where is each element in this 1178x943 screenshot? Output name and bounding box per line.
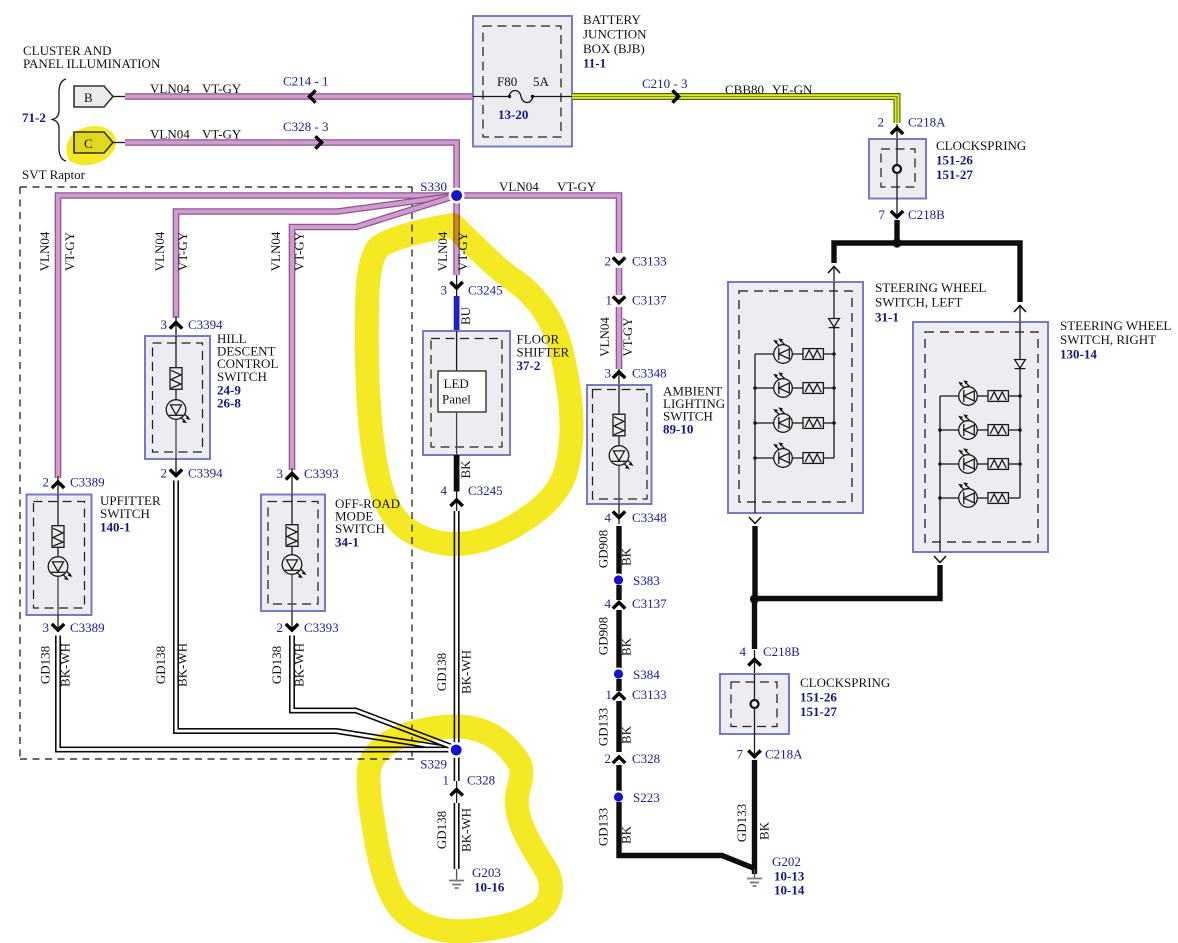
svg-text:C3393: C3393 (304, 466, 339, 481)
svg-text:G203: G203 (472, 865, 501, 880)
highlighter loop around ground G203 (369, 726, 551, 931)
label YE-GN on YE-GN wire (772, 82, 813, 97)
wire VLN04 VT-GY from S330 right to ambient chain (457, 196, 619, 254)
ground G202 (747, 869, 762, 886)
svg-text:VT-GY: VT-GY (557, 179, 597, 194)
pin 2 and connector C3133 on ambient chain (605, 254, 667, 269)
svg-text:VLN04: VLN04 (152, 231, 167, 271)
wire BK to right steering wheel switch (897, 243, 1020, 302)
svg-text:151-27: 151-27 (936, 167, 973, 182)
svg-text:7: 7 (879, 207, 886, 222)
clockspring lower (720, 674, 789, 734)
wire VLN04 short segment (616, 268, 623, 295)
svg-text:34-1: 34-1 (335, 535, 359, 550)
label VT-GY on wire to ambient chain (557, 179, 597, 194)
svg-text:C218B: C218B (908, 207, 945, 222)
rotated label GD133 seg (596, 708, 611, 746)
svg-text:1: 1 (606, 687, 613, 702)
LED row 1 right switch (940, 380, 1020, 405)
right switch right bus (1018, 369, 1022, 498)
LED row 3 left switch (755, 407, 834, 432)
svg-text:F80: F80 (497, 74, 517, 89)
svg-text:89-10: 89-10 (663, 422, 693, 437)
pin 4 and connector C3245 below floor shifter (441, 483, 503, 511)
LED row 4 right switch (940, 482, 1020, 507)
wire BK out of floor shifter (454, 455, 460, 492)
highlighter loop around floor shifter (367, 225, 572, 544)
BJB title text (583, 12, 647, 71)
svg-text:1: 1 (443, 773, 450, 788)
svg-text:CLOCKSPRING: CLOCKSPRING (936, 138, 1026, 153)
wire BK segment above S223 (616, 765, 621, 792)
svg-text:BK-WH: BK-WH (459, 808, 474, 852)
svg-text:C3137: C3137 (632, 596, 667, 611)
svg-text:BK-WH: BK-WH (175, 643, 190, 687)
left switch right bus (832, 328, 836, 458)
rotated label VLN04 branch 2 (152, 231, 167, 271)
rotated label GD138 branch 1 (38, 646, 53, 684)
svg-text:STEERING WHEEL: STEERING WHEEL (875, 280, 986, 295)
label VLN04 on C wire (150, 127, 190, 142)
wire CBB80 YE-GN from BJB to clockspring (572, 97, 897, 124)
LED row 2 right switch (940, 414, 1020, 439)
svg-text:4: 4 (740, 644, 747, 659)
pin 7 and connector C218A below lower clockspring (737, 734, 804, 762)
rotated label BK below floor shifter (458, 460, 473, 479)
svg-text:31-1: 31-1 (875, 310, 899, 325)
splice S223 label (633, 790, 660, 805)
pin 1 and connector C3133 lower chain (606, 687, 667, 702)
pin 1 and connector C328 below S329 (443, 773, 496, 804)
svg-text:GD138: GD138 (434, 811, 449, 849)
brace for connectors B and C (53, 79, 67, 161)
svg-text:7: 7 (737, 747, 744, 762)
svg-text:2: 2 (161, 466, 168, 481)
svg-text:GD908: GD908 (596, 617, 611, 655)
rotated label VT-GY branch 1 (62, 231, 77, 271)
svg-text:10-16: 10-16 (474, 880, 505, 895)
label VLN04 on B wire (150, 81, 190, 96)
label GD133 rotated (734, 804, 749, 842)
svg-text:5A: 5A (533, 74, 550, 89)
connector label C210 - 3 (642, 76, 688, 91)
rotated label BK seg1 (619, 547, 634, 566)
svg-text:BK-WH: BK-WH (292, 643, 307, 687)
connector B (74, 86, 126, 107)
svg-text:BK-WH: BK-WH (58, 643, 73, 687)
rotated label GD138 at ground wire (434, 811, 449, 849)
pin 4 and connector C3348 below ambient switch (605, 504, 667, 525)
svg-text:VLN04: VLN04 (268, 231, 283, 271)
svg-text:S383: S383 (633, 573, 660, 588)
diode D1 in left switch (829, 319, 840, 328)
right switch internal feed wire (1019, 322, 1021, 359)
svg-text:C218A: C218A (765, 747, 803, 762)
hill descent control switch box (145, 336, 210, 459)
steering wheel switch right box (913, 322, 1048, 552)
svg-text:VT-GY: VT-GY (175, 231, 190, 271)
pin 3 and connector C3389 below upfitter switch (43, 615, 105, 635)
wire BK segment below S384 (616, 679, 621, 691)
fuse F80 5A (473, 74, 572, 103)
svg-text:37-2: 37-2 (517, 358, 541, 373)
pin 4 and connector C218B at lower clockspring (740, 644, 801, 674)
battery junction box BJB (473, 16, 572, 147)
svg-text:GD133: GD133 (596, 708, 611, 746)
steering wheel switch left labels (875, 280, 986, 325)
wire VLN04 VT-GY from S330 to branch 3 off-road (292, 196, 457, 471)
svg-text:VLN04: VLN04 (37, 231, 52, 271)
svg-text:BK: BK (619, 637, 634, 656)
svg-text:71-2: 71-2 (22, 110, 46, 125)
wire BK from clockspring to junction (894, 220, 899, 243)
rotated label VLN04 ambient (597, 317, 612, 357)
svg-text:BK: BK (757, 821, 772, 840)
wire GD133 BK from S223 to ground G202 (619, 802, 755, 869)
svg-text:B: B (84, 90, 93, 105)
arrow right on YE-GN wire at C210 (672, 90, 678, 102)
pin 7 and connector C218B below upper clockspring (879, 199, 946, 223)
svg-text:26-8: 26-8 (217, 396, 241, 411)
svg-text:C218B: C218B (763, 644, 800, 659)
rotated label VT-GY branch 4 (455, 231, 470, 271)
svg-text:3: 3 (441, 283, 448, 298)
LED panel inside floor shifter (438, 331, 486, 455)
rotated label BK-WH branch 1 (58, 643, 73, 687)
open arrow into left steering wheel switch (828, 266, 840, 282)
wire VLN04 VT-GY from C to splice S330 (125, 143, 457, 196)
splice S384 (612, 668, 625, 681)
off-road mode switch box (261, 495, 325, 612)
svg-text:C328: C328 (467, 773, 495, 788)
resistor in hill descent switch (170, 336, 182, 389)
svg-text:BK-WH: BK-WH (459, 650, 474, 694)
ground G203 (449, 869, 464, 888)
svg-text:C3133: C3133 (632, 687, 667, 702)
svg-text:11-1: 11-1 (583, 56, 606, 71)
rotated label VLN04 branch 4 (435, 231, 450, 271)
svg-text:VT-GY: VT-GY (202, 127, 242, 142)
svg-text:GD138: GD138 (153, 646, 168, 684)
svg-text:C3389: C3389 (70, 475, 105, 490)
svg-text:JUNCTION: JUNCTION (583, 27, 647, 42)
rotated label BK-WH branch 3 (292, 643, 307, 687)
svg-text:C3394: C3394 (188, 466, 223, 481)
svg-text:2: 2 (43, 475, 50, 490)
wire GD138 BK-WH from hill descent switch to S329 (176, 481, 456, 750)
connector C (74, 132, 126, 153)
svg-text:C328 - 3: C328 - 3 (283, 119, 329, 134)
LED in ambient switch (609, 436, 633, 504)
svg-text:151-26: 151-26 (800, 690, 837, 705)
svg-text:GD138: GD138 (269, 646, 284, 684)
wire BU into floor shifter (454, 296, 460, 331)
splice S384 label (633, 667, 660, 682)
svg-text:2: 2 (277, 620, 284, 635)
arrow right on C wire at C328 (315, 136, 321, 148)
connector label C328 - 3 (283, 119, 329, 134)
resistor in upfitter switch (52, 495, 64, 548)
pin 3 and connector C3348 at ambient switch (605, 366, 667, 386)
rotated label BK seg2 (619, 637, 634, 656)
wire GD138 BK-WH from off-road switch to S329 (292, 636, 456, 749)
rotated label VLN04 branch 1 (37, 231, 52, 271)
clockspring lower labels (800, 675, 890, 719)
svg-text:BK: BK (619, 825, 634, 844)
svg-text:2: 2 (878, 115, 885, 130)
upfitter switch labels (100, 493, 161, 535)
rotated label BK-WH branch 4 (459, 650, 474, 694)
svg-text:C3245: C3245 (468, 283, 503, 298)
upfitter switch box (27, 495, 92, 616)
svg-text:S329: S329 (420, 757, 447, 772)
svg-text:C3348: C3348 (632, 510, 667, 525)
wire VLN04 VT-GY to ambient switch (616, 307, 623, 369)
SVT Raptor label (22, 167, 86, 182)
wire VLN04 VT-GY from S330 down to floor shifter (453, 196, 460, 276)
hill descent switch labels (217, 331, 278, 411)
svg-text:VT-GY: VT-GY (620, 317, 635, 357)
highlighter mark around connector C (70, 130, 113, 162)
svg-text:4: 4 (605, 596, 612, 611)
ground G203 labels (472, 865, 505, 895)
svg-text:VLN04: VLN04 (499, 179, 539, 194)
ambient lighting switch box (587, 385, 652, 504)
splice S223 (612, 791, 625, 804)
svg-text:VT-GY: VT-GY (202, 81, 242, 96)
rotated label VT-GY branch 3 (292, 231, 307, 271)
wire GD908 BK segment 2 (616, 610, 621, 669)
wire BK segment below S383 (616, 585, 621, 600)
svg-text:3: 3 (277, 466, 284, 481)
LED in off-road switch (282, 547, 306, 612)
wire GD908 BK segment 1 (616, 526, 621, 575)
label VT-GY on C wire (202, 127, 242, 142)
svg-text:G202: G202 (772, 854, 801, 869)
splice S383 (612, 574, 625, 587)
wire BK to left steering wheel switch (834, 243, 897, 263)
svg-text:VT-GY: VT-GY (292, 231, 307, 271)
rotated label GD138 branch 4 (434, 653, 449, 691)
rotated label GD138 branch 2 (153, 646, 168, 684)
rotated label BK-WH at ground wire (459, 808, 474, 852)
ground G202 labels (772, 854, 805, 898)
clockspring upper (869, 139, 926, 199)
open arrow out of right steering wheel switch (934, 556, 946, 563)
svg-text:SWITCH, LEFT: SWITCH, LEFT (875, 295, 962, 310)
pin 1 and connector C3137 on ambient chain (606, 293, 668, 308)
wire GD133 BK segment (616, 701, 621, 752)
rotated label GD138 branch 3 (269, 646, 284, 684)
left switch left bus (753, 354, 757, 513)
off-road switch labels (335, 496, 400, 550)
SVT Raptor dashed boundary box (20, 187, 414, 759)
svg-text:C3133: C3133 (632, 254, 667, 269)
svg-text:4: 4 (441, 483, 448, 498)
svg-text:140-1: 140-1 (100, 520, 130, 535)
label BK rotated (757, 821, 772, 840)
rotated label GD133 ground run (596, 808, 611, 846)
right switch left bus (938, 396, 942, 552)
pin 4 and connector C3137 lower chain (605, 596, 668, 611)
open arrow into right steering wheel switch (1014, 305, 1026, 322)
svg-text:151-26: 151-26 (936, 153, 973, 168)
wire GD138 BK-WH to ground G203 (454, 803, 460, 869)
svg-text:C3348: C3348 (632, 366, 667, 381)
rotated label GD908 seg1 (596, 530, 611, 568)
steering wheel switch right labels (1060, 318, 1171, 362)
svg-text:4: 4 (605, 510, 612, 525)
svg-text:C218A: C218A (908, 115, 946, 130)
rotated label BK seg3 (619, 725, 634, 744)
svg-text:GD138: GD138 (434, 653, 449, 691)
clockspring upper labels (936, 138, 1026, 182)
svg-text:GD133: GD133 (596, 808, 611, 846)
rotated label BU (458, 306, 473, 325)
title: CLUSTER AND PANEL ILLUMINATION (23, 43, 161, 71)
svg-text:130-14: 130-14 (1060, 347, 1097, 362)
wire GD138 BK-WH from upfitter switch to S329 (58, 636, 450, 750)
LED in hill descent switch (166, 390, 190, 460)
svg-text:C3394: C3394 (188, 317, 223, 332)
pin 2 and connector C218A at clockspring top (878, 115, 947, 140)
svg-text:C3137: C3137 (632, 293, 667, 308)
wire VLN04 VT-GY from B to BJB (125, 93, 473, 100)
svg-text:10-13: 10-13 (774, 869, 805, 884)
svg-text:2: 2 (605, 254, 612, 269)
svg-text:BOX (BJB): BOX (BJB) (583, 41, 645, 56)
svg-text:SVT Raptor: SVT Raptor (22, 167, 86, 182)
page reference 71-2 (22, 110, 46, 125)
svg-text:BU: BU (458, 306, 473, 325)
svg-text:VT-GY: VT-GY (62, 231, 77, 271)
wire GD133 BK from lower clockspring to ground G202 (752, 760, 757, 874)
pin 3 and connector C3394 at hill descent switch (161, 316, 224, 336)
svg-text:CLOCKSPRING: CLOCKSPRING (800, 675, 890, 690)
open arrow out of left steering wheel switch (749, 517, 761, 524)
LED row 4 left switch (755, 442, 834, 467)
svg-text:C210 - 3: C210 - 3 (642, 76, 688, 91)
pin 2 and connector C3389 at upfitter switch (43, 475, 105, 496)
pin 3 and connector C3245 at floor shifter (441, 275, 503, 298)
svg-text:C3389: C3389 (70, 620, 105, 635)
svg-text:GD133: GD133 (734, 804, 749, 842)
floor shifter box (423, 331, 510, 455)
svg-text:13-20: 13-20 (498, 107, 528, 122)
svg-text:YE-GN: YE-GN (772, 82, 813, 97)
svg-text:GD138: GD138 (38, 646, 53, 684)
resistor in ambient switch (613, 385, 625, 436)
svg-text:STEERING WHEEL: STEERING WHEEL (1060, 318, 1171, 333)
junction node of steering wheel switch feeds (892, 238, 901, 247)
svg-text:PANEL ILLUMINATION: PANEL ILLUMINATION (23, 56, 161, 71)
splice S383 label (633, 573, 660, 588)
LED in upfitter switch (48, 548, 72, 616)
svg-text:BATTERY: BATTERY (583, 12, 641, 27)
left switch internal feed wire (833, 282, 835, 318)
svg-text:S330: S330 (420, 179, 447, 194)
LED row 2 left switch (755, 372, 834, 397)
resistor in off-road switch (286, 495, 298, 547)
svg-text:3: 3 (161, 317, 168, 332)
wire VLN04 VT-GY splice bus from S330 to branch 1 (58, 196, 457, 479)
pin 2 and connector C328 lower chain (605, 751, 661, 766)
svg-text:3: 3 (605, 366, 612, 381)
svg-text:VLN04: VLN04 (597, 317, 612, 357)
wire VLN04 VT-GY from S330 to branch 2 hill descent (176, 196, 457, 319)
rotated label VT-GY ambient (620, 317, 635, 357)
steering wheel switch left box (728, 282, 863, 513)
floor shifter labels (517, 332, 570, 374)
label CBB80 on YE-GN wire (725, 82, 764, 97)
pin 2 and connector C3394 below hill descent switch (161, 459, 224, 481)
svg-text:VLN04: VLN04 (150, 81, 190, 96)
svg-text:10-14: 10-14 (774, 883, 805, 898)
rotated label BK ground run (619, 825, 634, 844)
svg-text:151-27: 151-27 (800, 704, 837, 719)
svg-text:VLN04: VLN04 (150, 127, 190, 142)
arrow left on B wire at C214 (309, 90, 315, 102)
pin 2 and connector C3393 below off-road switch (277, 611, 339, 635)
connector label C214 - 1 (283, 74, 329, 89)
svg-text:LED: LED (444, 376, 469, 391)
svg-text:S223: S223 (633, 790, 660, 805)
splice S329 label (420, 757, 447, 772)
svg-text:Panel: Panel (442, 392, 471, 407)
svg-text:CBB80: CBB80 (725, 82, 764, 97)
BJB page reference 13-20 (498, 107, 528, 122)
splice S329 (448, 742, 464, 758)
LED row 1 left switch (755, 338, 834, 363)
svg-text:C3245: C3245 (468, 483, 503, 498)
svg-text:BK: BK (619, 725, 634, 744)
svg-text:C3393: C3393 (304, 620, 339, 635)
splice S330 (449, 188, 465, 204)
svg-text:C328: C328 (632, 751, 660, 766)
rotated label VLN04 branch 3 (268, 231, 283, 271)
svg-text:1: 1 (606, 293, 613, 308)
svg-text:BK: BK (619, 547, 634, 566)
label VT-GY on B wire (202, 81, 242, 96)
junction node above lower clockspring (750, 594, 759, 603)
svg-text:S384: S384 (633, 667, 660, 682)
svg-text:2: 2 (605, 751, 612, 766)
wire BK from junction to lower clockspring (752, 599, 757, 649)
wire BK from left switch to junction (752, 526, 757, 599)
rotated label VT-GY branch 2 (175, 231, 190, 271)
LED row 3 right switch (940, 448, 1020, 473)
wire BK from right switch to junction (755, 565, 940, 599)
rotated label GD908 seg2 (596, 617, 611, 655)
ambient switch labels (663, 384, 725, 437)
wire GD138 BK-WH from floor shifter down through S329 (454, 511, 460, 781)
diode D2 in right switch (1015, 360, 1026, 369)
svg-text:C214 - 1: C214 - 1 (283, 74, 329, 89)
svg-text:SWITCH, RIGHT: SWITCH, RIGHT (1060, 332, 1156, 347)
label VLN04 on wire to ambient chain (499, 179, 539, 194)
svg-text:BK: BK (458, 460, 473, 479)
splice S330 label (420, 179, 447, 194)
rotated label BK-WH branch 2 (175, 643, 190, 687)
svg-text:GD908: GD908 (596, 530, 611, 568)
svg-text:3: 3 (43, 620, 50, 635)
pin 3 and connector C3393 at off-road switch (277, 466, 339, 495)
